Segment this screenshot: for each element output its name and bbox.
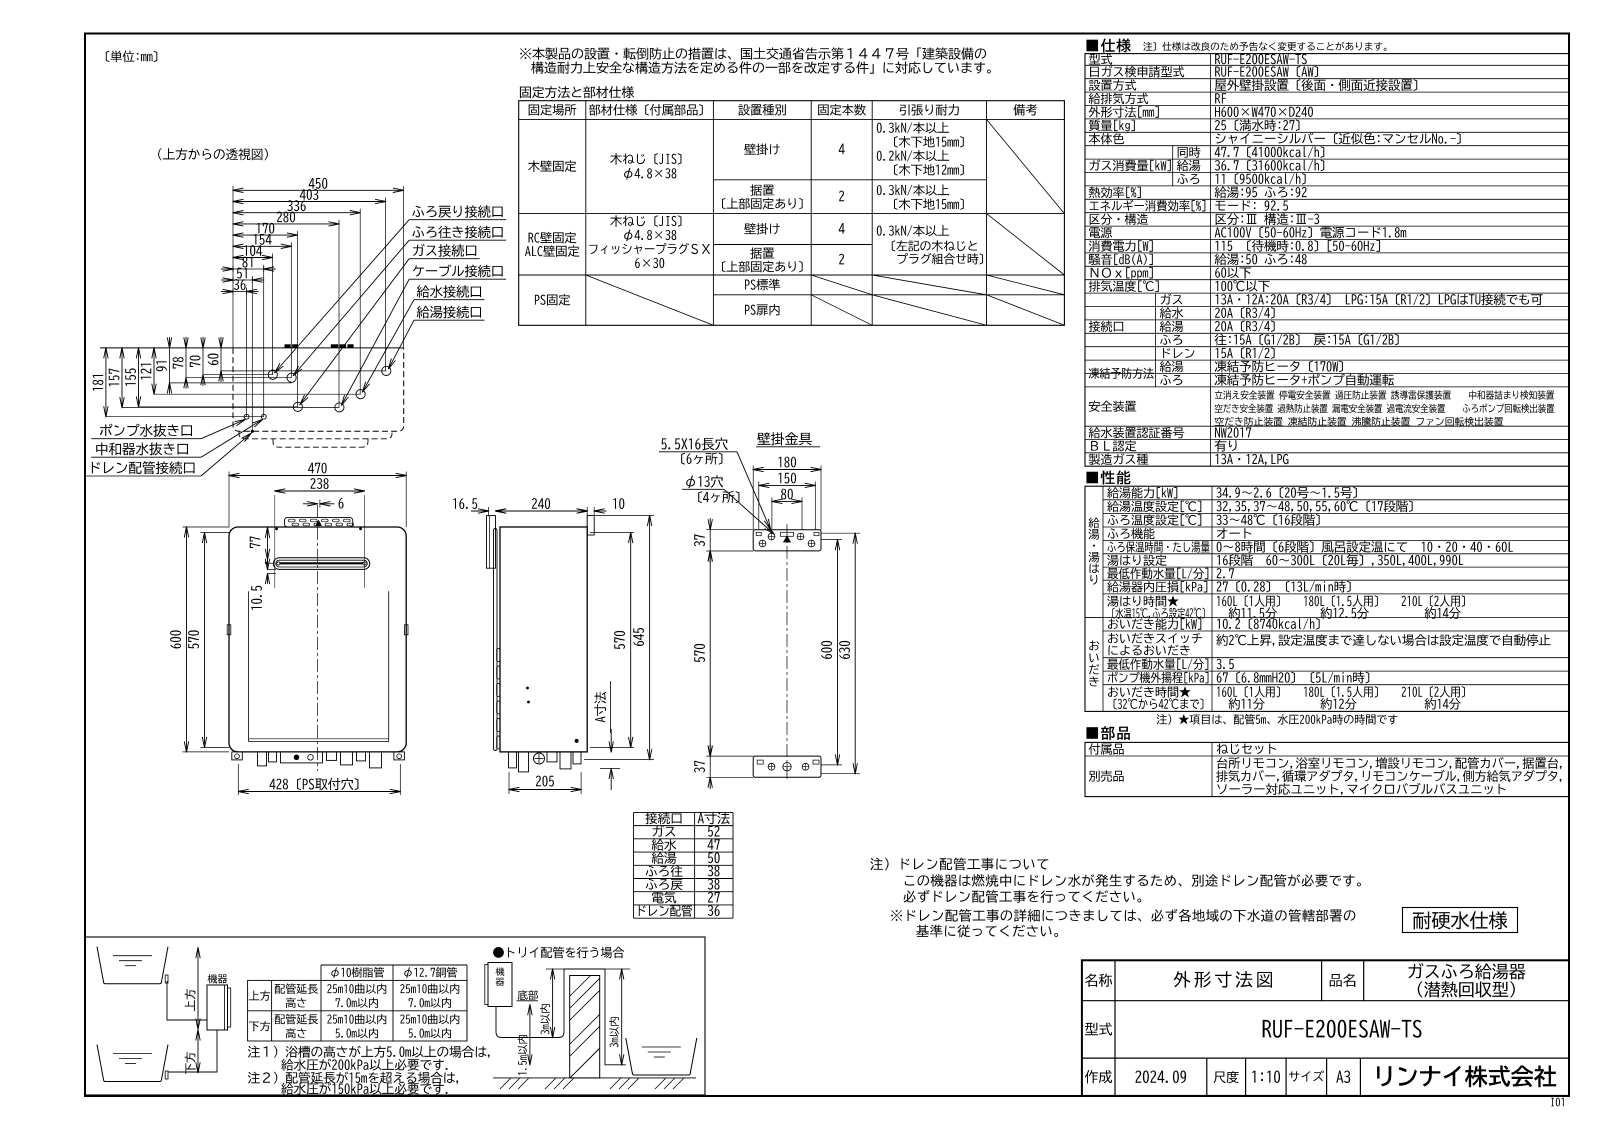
side dots bbox=[526, 687, 529, 690]
piping lines bbox=[167, 981, 207, 1020]
label 中和器水抜き口 bbox=[96, 442, 188, 455]
front dim 77 bbox=[267, 528, 269, 560]
front center line bbox=[317, 505, 319, 771]
top view horizontal extension lines bbox=[221, 370, 386, 372]
bracket dim 80 bbox=[772, 500, 802, 502]
front dim 428 PS holes bbox=[237, 764, 239, 795]
label ふろ戻り接続口 bbox=[412, 205, 502, 218]
bracket bottom bbox=[753, 756, 821, 777]
front view outline bbox=[229, 527, 406, 752]
lower bathtub bbox=[97, 1045, 168, 1082]
top view dim 36 bbox=[221, 291, 233, 293]
bracket centerline bbox=[786, 524, 788, 782]
side dim 645 bbox=[594, 515, 654, 517]
performance table text bbox=[1107, 487, 1177, 499]
top view dim extension lines bbox=[402, 186, 404, 348]
ground line bbox=[493, 1077, 696, 1079]
side dim 16.5 bbox=[453, 498, 477, 509]
fixation table title bbox=[520, 86, 634, 98]
torii title bbox=[493, 947, 624, 959]
side bracket tab bbox=[587, 516, 594, 536]
updim 上方 bbox=[197, 948, 199, 1029]
spec section header bbox=[1086, 38, 1130, 52]
device (kiki) bbox=[208, 974, 228, 984]
bracket label bbox=[757, 432, 812, 445]
parts table grid bbox=[1085, 742, 1569, 796]
side top vent box bbox=[487, 516, 496, 569]
bracket dim 180 bbox=[753, 469, 821, 471]
connection ports (top view) bbox=[382, 366, 391, 375]
side view outline bbox=[500, 527, 587, 752]
torii dims bbox=[552, 969, 554, 1038]
downdim 下方 bbox=[197, 1030, 199, 1073]
top view unit outline dashed bbox=[233, 348, 404, 431]
label 給湯接続口 bbox=[417, 306, 481, 319]
bracket dim 150 bbox=[759, 484, 816, 486]
torii device bbox=[488, 963, 512, 1007]
top view dim 81 bbox=[221, 268, 233, 270]
bottom-left box bbox=[85, 937, 705, 1095]
top view dim 104 bbox=[233, 257, 272, 259]
top view dim 450 bbox=[233, 189, 403, 191]
performance table grid bbox=[1085, 486, 1569, 711]
front dim 10.5 bbox=[267, 559, 269, 569]
drain piping note bbox=[870, 858, 1048, 871]
parts section header bbox=[1086, 726, 1129, 740]
ground hatching bbox=[500, 1078, 511, 1089]
top view dim 154 bbox=[233, 245, 291, 247]
spec table text bbox=[1089, 54, 1112, 65]
label ケーブル接続口 bbox=[413, 265, 503, 278]
side dim 205 bbox=[508, 772, 510, 794]
hard water stamp bbox=[1403, 908, 1518, 933]
front dim 600 bbox=[183, 526, 230, 528]
pipe notes bbox=[248, 1046, 490, 1058]
side louver slots bbox=[497, 649, 500, 662]
installation notice bbox=[520, 47, 986, 59]
spec table grid bbox=[1085, 54, 1569, 467]
torii wall bbox=[570, 976, 600, 1078]
top view title bbox=[158, 148, 268, 160]
label ふろ往き接続口 bbox=[412, 226, 502, 239]
vent ext lines bbox=[274, 495, 276, 588]
bracket dim 600 bbox=[837, 540, 839, 765]
top view dim 336 bbox=[233, 212, 360, 214]
bracket dim 630 bbox=[854, 533, 856, 774]
top view drain pan dashed bbox=[273, 439, 368, 447]
top view dim 170 bbox=[233, 234, 297, 236]
exhaust slot bbox=[273, 558, 369, 570]
front creases bbox=[248, 591, 250, 741]
torii pipes bbox=[496, 969, 564, 1038]
pipe length table bbox=[321, 964, 467, 966]
upper bathtub bbox=[97, 947, 168, 984]
group label おいだき bbox=[1089, 641, 1099, 651]
label ドレン配管接続口 bbox=[92, 461, 195, 474]
label ポンプ水抜き口 bbox=[100, 424, 192, 437]
top view front cover seam dashed bbox=[239, 431, 392, 439]
group label 給湯・湯はり bbox=[1089, 517, 1100, 528]
fixation table grid bbox=[519, 101, 1065, 326]
front dim 570 bbox=[201, 532, 230, 534]
bracket dim 37 top bbox=[709, 518, 711, 530]
front side tabs bbox=[227, 625, 231, 635]
label 給水接続口 bbox=[417, 285, 481, 298]
side dim 240 bbox=[496, 510, 588, 512]
front dim 238 bbox=[275, 490, 365, 492]
top view left vertical dims bbox=[105, 348, 107, 417]
top view wall line bbox=[100, 347, 404, 349]
bracket top bbox=[753, 530, 821, 551]
torii soko label bbox=[518, 990, 538, 1000]
front screws bbox=[275, 527, 278, 530]
side dim 570 bbox=[590, 532, 634, 534]
sheet number bbox=[1551, 1098, 1563, 1107]
front bottom louver bbox=[249, 738, 389, 740]
side dim 10 bbox=[575, 510, 587, 512]
title block bbox=[1082, 960, 1569, 1096]
top view dim 51 bbox=[221, 279, 233, 281]
top view dim 280 bbox=[233, 223, 339, 225]
wall bracket section marks bbox=[285, 344, 291, 348]
front bottom connections bbox=[232, 752, 243, 760]
top view dim 403 bbox=[233, 201, 386, 203]
front dim 6 bbox=[303, 503, 318, 505]
bracket dim 37 bottom bbox=[709, 744, 711, 756]
side front lip bbox=[494, 529, 498, 751]
performance section header bbox=[1086, 471, 1130, 485]
front dim 470 bbox=[228, 472, 230, 528]
unit note bbox=[106, 51, 157, 63]
side bottom pipes bbox=[509, 752, 517, 768]
performance note bbox=[1157, 714, 1398, 725]
bracket dim 570 bbox=[709, 551, 711, 756]
torii bathtub bbox=[626, 1038, 697, 1075]
front view top vent bbox=[285, 517, 353, 527]
label ガス接続口 bbox=[413, 244, 476, 257]
side dim A bbox=[610, 729, 612, 752]
bracket hole labels bbox=[662, 438, 728, 451]
A-dim table bbox=[634, 811, 734, 813]
